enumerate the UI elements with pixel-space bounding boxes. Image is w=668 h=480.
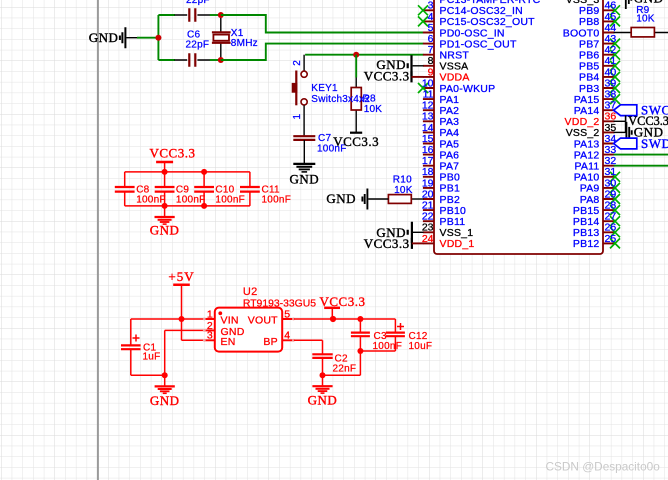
wire C7 to ground xyxy=(303,140,305,164)
capacitor C5 (22pF, top, partially visible) xyxy=(175,0,211,22)
right pin stubs xyxy=(603,10,615,243)
svg-text:BP: BP xyxy=(263,336,277,348)
svg-text:22pF: 22pF xyxy=(186,39,210,50)
power flag VCC3.3 (C9 rail) xyxy=(150,146,196,172)
svg-text:25: 25 xyxy=(605,233,617,245)
wire KEY1 to C7 xyxy=(303,105,305,136)
wire PA12 (pin 33) xyxy=(614,154,668,156)
no-connect X pin 46 xyxy=(610,5,620,15)
net flag SWDIO (pin 34 PA13) xyxy=(614,136,668,151)
svg-text:22nF: 22nF xyxy=(333,364,357,375)
svg-text:22pF: 22pF xyxy=(186,0,210,6)
junction dot crystal left xyxy=(155,35,161,41)
no-connect X pin 26 xyxy=(610,227,620,237)
no-connect X pin 27 xyxy=(610,216,620,226)
wire OSC_OUT to pin 6 xyxy=(221,44,424,60)
sheet border line xyxy=(97,0,99,480)
junction dots GND rail xyxy=(162,203,168,209)
ground flag GND (R9, top right, clipped) xyxy=(626,0,664,9)
no-connect X pin 43 xyxy=(610,39,620,49)
wire bottom row xyxy=(158,59,175,61)
svg-text:GND: GND xyxy=(289,171,319,186)
junction dot VCC3.3 flag xyxy=(330,316,336,322)
junction dot C3 top xyxy=(357,316,363,322)
wire GND pin2 xyxy=(165,330,204,375)
no-connect X pin 38 xyxy=(610,94,620,104)
power flag VCC3.3 (pin 24 VDD_1) xyxy=(364,236,424,251)
wire C1 to VIN xyxy=(131,318,204,320)
junction dot C1/GND xyxy=(162,372,168,378)
wire BP to C2 xyxy=(294,340,323,354)
svg-text:VDD_1: VDD_1 xyxy=(440,238,475,250)
capacitor C3 100nF xyxy=(351,319,402,352)
power flag VCC3.3 (pin 9 VDDA) xyxy=(364,68,424,83)
svg-text:+5V: +5V xyxy=(168,269,194,284)
wire GND rail (bottom) xyxy=(125,205,250,207)
wire C3/C12 gnd to C2 gnd xyxy=(323,351,361,375)
svg-text:U2: U2 xyxy=(243,286,258,298)
wire OSC_IN to pin 5 xyxy=(221,15,424,33)
wire top row right xyxy=(210,14,221,16)
capacitor C9 100nF xyxy=(155,172,206,206)
capacitor C6 22pF xyxy=(175,30,211,67)
svg-text:10uF: 10uF xyxy=(409,341,433,352)
resistor R8 10K (NRST pullup) xyxy=(351,55,382,133)
svg-text:GND: GND xyxy=(634,0,664,6)
svg-text:3: 3 xyxy=(207,330,213,342)
wire VCC rail (top) xyxy=(125,171,250,173)
svg-text:KEY1: KEY1 xyxy=(311,83,338,94)
net flag SWCLK (pin 37 PA14) xyxy=(614,103,668,118)
no-connect X pin 40 xyxy=(610,72,620,82)
svg-text:CSDN @Despacito0o: CSDN @Despacito0o xyxy=(546,460,661,474)
wire bottom row right xyxy=(210,59,221,61)
svg-text:GND: GND xyxy=(89,30,119,45)
svg-text:100nF: 100nF xyxy=(136,194,166,205)
svg-text:Switch3x4x2: Switch3x4x2 xyxy=(311,94,370,105)
svg-text:GND: GND xyxy=(326,191,356,206)
power flag VCC3.3 (below R8) xyxy=(333,133,379,149)
capacitor C12 10uF xyxy=(360,319,432,352)
capacitor C2 22nF xyxy=(312,354,356,376)
wire KEY1 to NRST xyxy=(303,55,305,71)
no-connect X pin 41 xyxy=(610,61,620,71)
power flag VCC3.3 (VOUT) xyxy=(320,294,366,319)
wire PA11 (pin 32) xyxy=(614,165,668,167)
resistor R10 10K (PB2) xyxy=(388,174,423,203)
wire top row xyxy=(158,14,175,16)
wire NRST net xyxy=(305,54,423,56)
ground flag GND (crystal) xyxy=(89,27,138,48)
svg-text:VCC3.3: VCC3.3 xyxy=(150,146,196,161)
no-connect X pin 10 xyxy=(418,83,428,93)
ground (under C2) xyxy=(308,375,338,407)
junction dot +5V/VIN xyxy=(179,316,185,322)
no-connect X pin 4 xyxy=(418,16,428,26)
capacitor C1 1uF (electrolytic) xyxy=(121,319,165,375)
svg-text:PB12: PB12 xyxy=(573,238,600,250)
svg-text:10K: 10K xyxy=(364,104,383,115)
no-connect X pin 42 xyxy=(610,50,620,60)
left pin stubs xyxy=(423,10,434,243)
svg-text:4: 4 xyxy=(284,330,290,342)
junction dot crystal top xyxy=(218,12,224,18)
MCU U1 body xyxy=(434,0,603,254)
junction dot C3 bottom xyxy=(357,348,363,354)
svg-text:C7: C7 xyxy=(318,133,331,144)
svg-text:10K: 10K xyxy=(394,185,413,196)
ground flag GND (pin 8 VSSA) xyxy=(376,55,423,76)
no-connect X pin 28 xyxy=(610,205,620,215)
wire GND to crystal loop xyxy=(137,37,158,39)
crystal X1 8MHz xyxy=(212,15,258,60)
wire crystal loop left xyxy=(157,15,159,60)
pushbutton KEY1 Switch3x4x2 xyxy=(292,60,371,120)
voltage regulator U2 RT9193-33GU5 xyxy=(203,286,316,352)
svg-text:100nF: 100nF xyxy=(215,194,245,205)
svg-text:100nF: 100nF xyxy=(262,194,292,205)
ground flag GND (pin 35 VSS_2) xyxy=(614,122,664,143)
svg-text:GND: GND xyxy=(150,222,180,237)
svg-text:24: 24 xyxy=(422,233,434,245)
resistor R9 10K (BOOT0) xyxy=(614,5,668,37)
ground (under C8-C11) xyxy=(150,206,180,237)
svg-text:2: 2 xyxy=(292,60,303,66)
svg-text:VCC3.3: VCC3.3 xyxy=(333,134,379,149)
no-connect X pin 39 xyxy=(610,83,620,93)
capacitor C10 100nF xyxy=(194,172,245,206)
svg-text:VCC3.3: VCC3.3 xyxy=(364,236,410,251)
svg-text:RT9193-33GU5: RT9193-33GU5 xyxy=(243,298,316,309)
svg-text:R10: R10 xyxy=(393,174,412,185)
svg-text:100nF: 100nF xyxy=(176,194,206,205)
svg-text:EN: EN xyxy=(221,336,236,348)
junction dot NRST xyxy=(353,52,359,58)
wire EN tie xyxy=(182,319,205,340)
svg-text:VCC3.3: VCC3.3 xyxy=(364,68,410,83)
ground (under C1) xyxy=(150,375,180,408)
svg-text:VIN: VIN xyxy=(221,315,239,327)
no-connect X pin 25 xyxy=(610,238,620,248)
ground flag GND (R10) xyxy=(326,189,388,210)
svg-text:SWDIO: SWDIO xyxy=(641,136,668,151)
svg-text:GND: GND xyxy=(308,393,338,408)
capacitor C7 100nF xyxy=(293,133,346,155)
svg-text:1: 1 xyxy=(292,114,303,120)
wire VOUT xyxy=(294,318,396,320)
capacitor C11 100nF xyxy=(240,172,291,206)
junction dots VCC rail xyxy=(162,169,168,175)
svg-text:GND: GND xyxy=(150,393,180,408)
svg-text:1uF: 1uF xyxy=(143,352,161,363)
power flag +5V xyxy=(168,269,194,319)
svg-text:X1: X1 xyxy=(231,28,244,39)
svg-text:100nF: 100nF xyxy=(373,341,403,352)
power flag VCC3.3 (pin 36 VDD_2) xyxy=(614,114,668,133)
no-connect X pin 30 xyxy=(610,183,620,193)
junction dot crystal bottom xyxy=(218,57,224,63)
svg-text:1: 1 xyxy=(207,308,213,320)
svg-text:8MHz: 8MHz xyxy=(231,38,258,49)
svg-text:VOUT: VOUT xyxy=(248,315,278,327)
no-connect X pin 45 xyxy=(610,16,620,26)
no-connect X pin 3 xyxy=(418,5,428,15)
ground (under C7) xyxy=(289,164,319,186)
ground flag GND (pin 23 VSS_1) xyxy=(376,222,423,243)
capacitor C8 100nF xyxy=(115,172,166,206)
junction dot C2/GND xyxy=(320,372,326,378)
no-connect X pin 31 xyxy=(610,172,620,182)
svg-text:10K: 10K xyxy=(636,14,655,25)
svg-text:5: 5 xyxy=(284,308,290,320)
no-connect X pin 29 xyxy=(610,194,620,204)
